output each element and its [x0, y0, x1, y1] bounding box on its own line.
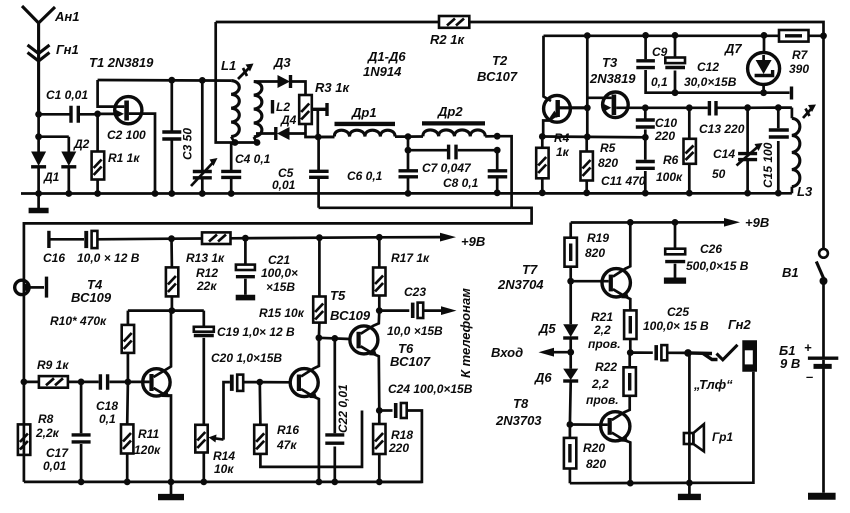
- resistor R22: [586, 353, 636, 407]
- arrow Vhod: [491, 345, 571, 360]
- audio bottom rail: [24, 479, 422, 486]
- output bottom rail: [570, 372, 754, 487]
- wire detector out: [24, 136, 532, 482]
- capacitor C19 electrolytic: [194, 311, 295, 425]
- svg-text:100к: 100к: [656, 170, 683, 184]
- svg-text:R20: R20: [583, 441, 605, 455]
- resistor R12: [166, 239, 218, 311]
- resistor R6: [656, 108, 696, 193]
- bar terminal D7: [675, 87, 792, 100]
- svg-text:С26: С26: [700, 242, 722, 256]
- svg-text:Д1: Д1: [43, 170, 60, 184]
- svg-text:0,01: 0,01: [43, 459, 67, 473]
- svg-text:Т5: Т5: [330, 288, 346, 303]
- svg-text:R19: R19: [587, 231, 609, 245]
- node T6 emitter: [376, 407, 383, 414]
- capacitor C2: [162, 80, 181, 193]
- svg-text:0,1: 0,1: [651, 75, 668, 89]
- ground rail: [21, 189, 792, 197]
- L2 core: [271, 100, 274, 114]
- svg-text:820: 820: [585, 246, 605, 260]
- svg-text:Д7: Д7: [724, 41, 742, 56]
- zener D7: [724, 35, 780, 96]
- input jack: [15, 277, 47, 298]
- inductor L1: [221, 58, 239, 146]
- svg-text:С6 0,1: С6 0,1: [347, 169, 383, 183]
- svg-text:2N3819: 2N3819: [589, 71, 636, 86]
- svg-text:R4: R4: [554, 131, 570, 145]
- svg-text:2,2: 2,2: [593, 323, 611, 337]
- resistor R20: [564, 425, 606, 484]
- svg-text:С10: С10: [655, 116, 677, 130]
- transistor T2 BC107: [477, 36, 587, 137]
- drain rail: [98, 79, 232, 82]
- resistor R7: [779, 30, 809, 76]
- capacitor C4: [221, 143, 270, 194]
- svg-text:R6: R6: [663, 153, 679, 167]
- svg-text:2,2к: 2,2к: [35, 426, 60, 440]
- capacitor C25 electrolytic: [630, 305, 709, 360]
- antenna An1: [22, 6, 79, 114]
- transistor T4 BC109: [128, 311, 171, 482]
- svg-text:Д6: Д6: [534, 370, 552, 385]
- svg-text:С24 100,0×15В: С24 100,0×15В: [388, 382, 473, 396]
- resistor R11: [121, 382, 161, 482]
- node R9-C18-C17: [78, 379, 85, 386]
- switch B1: [782, 36, 828, 285]
- resistor R3: [299, 80, 350, 137]
- capacitor C12 electrolytic: [665, 35, 736, 96]
- inductor L3: [792, 108, 813, 199]
- svg-text:L3: L3: [797, 184, 813, 199]
- svg-text:С2 100: С2 100: [107, 128, 146, 142]
- wire antenna down: [37, 114, 40, 136]
- svg-text:Д1-Д6: Д1-Д6: [367, 49, 406, 64]
- node T5 base: [256, 379, 263, 386]
- node antenna-C1: [35, 111, 42, 118]
- svg-text:1к: 1к: [556, 145, 570, 159]
- wire C5 feedback line: [319, 206, 512, 209]
- capacitor C24 electrolytic: [379, 382, 472, 482]
- supply rail +9V: [168, 233, 485, 249]
- resistor R5: [581, 137, 619, 193]
- gate line y108: [645, 106, 792, 109]
- svg-text:L2: L2: [276, 100, 290, 114]
- svg-text:ВС109: ВС109: [330, 308, 371, 323]
- svg-text:R11: R11: [138, 427, 159, 441]
- capacitor C18: [81, 374, 128, 426]
- svg-text:С17: С17: [46, 446, 69, 460]
- ground symbol audio: [158, 482, 184, 500]
- node gate T1: [94, 111, 101, 118]
- node C5-Dr1: [315, 134, 322, 141]
- svg-text:10к: 10к: [214, 462, 234, 476]
- capacitor C9: [636, 35, 675, 92]
- svg-text:ВС109: ВС109: [71, 290, 112, 305]
- svg-text:С18: С18: [96, 399, 118, 413]
- svg-text:1N914: 1N914: [363, 64, 402, 79]
- svg-text:9 В: 9 В: [780, 356, 800, 371]
- resistor R21: [588, 310, 637, 353]
- ground symbol battery: [808, 493, 836, 500]
- svg-text:390: 390: [789, 62, 809, 76]
- svg-text:10,0 ×15В: 10,0 ×15В: [387, 324, 443, 338]
- tap bar at R3: [312, 103, 327, 137]
- svg-text:100,0× 15 В: 100,0× 15 В: [643, 319, 709, 333]
- svg-text:Т3: Т3: [602, 55, 618, 70]
- wire to T5: [260, 381, 291, 384]
- svg-text:ВС107: ВС107: [477, 69, 518, 84]
- capacitor C23 electrolytic output: [379, 285, 456, 338]
- resistor R17: [373, 237, 430, 310]
- svg-text:R12: R12: [196, 266, 218, 280]
- svg-text:0,1: 0,1: [99, 412, 116, 426]
- transistor T1 2N3819: [89, 55, 155, 193]
- ground symbol left: [29, 194, 49, 214]
- svg-text:ВС107: ВС107: [390, 354, 431, 369]
- svg-text:К телефонам: К телефонам: [458, 288, 473, 378]
- choke Dr1: [318, 105, 408, 137]
- svg-text:+9В: +9В: [745, 215, 769, 230]
- svg-text:50: 50: [712, 167, 726, 181]
- resistor R8: [18, 412, 60, 455]
- wire T6 base: [319, 338, 350, 339]
- node Dr2-C8: [494, 133, 501, 140]
- svg-text:R17 1к: R17 1к: [391, 251, 430, 265]
- svg-text:820: 820: [598, 156, 618, 170]
- battery B1 9V: [779, 281, 838, 493]
- capacitor C16 electrolytic: [43, 231, 172, 265]
- svg-text:С22 0,01: С22 0,01: [336, 384, 350, 433]
- capacitor C8: [488, 150, 508, 193]
- resistor R15: [259, 238, 326, 338]
- resistor R4: [536, 131, 569, 193]
- svg-text:R1 1к: R1 1к: [108, 151, 140, 165]
- svg-text:+: +: [804, 340, 812, 355]
- svg-text:С1 0,01: С1 0,01: [46, 88, 88, 102]
- capacitor C20 electrolytic: [230, 375, 260, 391]
- svg-text:С25: С25: [667, 305, 689, 319]
- wire bias to gate: [586, 36, 589, 137]
- svg-text:10,0 × 12 В: 10,0 × 12 В: [77, 251, 140, 265]
- svg-text:L1: L1: [221, 58, 236, 73]
- jack Gn2 plug: [688, 317, 757, 392]
- svg-text:R16: R16: [277, 423, 299, 437]
- capacitor C11: [601, 137, 655, 193]
- node T6 collector: [376, 307, 383, 314]
- svg-text:С4 0,1: С4 0,1: [235, 152, 271, 166]
- capacitor C5: [272, 137, 329, 208]
- L3 tuning arrow: [803, 105, 816, 119]
- svg-text:47к: 47к: [276, 438, 297, 452]
- resistor R13: [186, 232, 231, 265]
- svg-text:В1: В1: [782, 265, 799, 280]
- svg-text:С21: С21: [268, 253, 290, 267]
- capacitor C15: [761, 108, 789, 194]
- svg-text:2N3704: 2N3704: [497, 277, 544, 292]
- svg-text:R10* 470к: R10* 470к: [50, 314, 107, 328]
- node T5 collector: [316, 334, 323, 341]
- node R21-R22-C25: [627, 349, 634, 356]
- diode D3: [254, 55, 306, 95]
- svg-text:R8: R8: [38, 412, 54, 426]
- svg-text:С15 100: С15 100: [761, 142, 775, 188]
- svg-text:С14: С14: [713, 147, 735, 161]
- choke Dr2: [408, 104, 497, 137]
- svg-text:2N3703: 2N3703: [495, 413, 542, 428]
- svg-text:Д3: Д3: [273, 55, 291, 70]
- ground bar C16: [47, 231, 50, 248]
- resistor R9: [21, 358, 82, 388]
- svg-text:–: –: [806, 369, 813, 384]
- svg-text:С8 0,1: С8 0,1: [443, 176, 479, 190]
- jack Gn1: [28, 42, 79, 61]
- svg-text:Т7: Т7: [522, 262, 538, 277]
- svg-text:R9 1к: R9 1к: [37, 358, 69, 372]
- transistor T8 2N3703: [570, 396, 630, 483]
- capacitor C14 variable: [712, 108, 763, 193]
- rail +3V: [571, 215, 770, 230]
- node T4 base: [125, 379, 132, 386]
- capacitor C26 electrolytic: [664, 222, 749, 283]
- svg-text:100,0×: 100,0×: [261, 266, 298, 280]
- svg-text:С13 220: С13 220: [699, 122, 745, 136]
- wire Gn2 down: [688, 353, 691, 483]
- svg-text:С12: С12: [697, 60, 719, 74]
- diode D2: [61, 137, 89, 194]
- svg-text:Вход: Вход: [491, 345, 523, 360]
- svg-text:820: 820: [586, 457, 606, 471]
- L1 tuning arrow: [238, 64, 254, 80]
- svg-text:22к: 22к: [196, 279, 217, 293]
- svg-text:R14: R14: [213, 449, 235, 463]
- svg-text:2,2: 2,2: [591, 377, 609, 391]
- svg-text:„Тлф“: „Тлф“: [693, 377, 733, 392]
- node Dr1-Dr2: [405, 133, 412, 140]
- bias line y36: [544, 32, 827, 39]
- transistor T7 2N3704: [497, 222, 630, 310]
- svg-text:R5: R5: [600, 141, 616, 155]
- capacitor C3 variable: [181, 80, 218, 193]
- node D1-D2: [35, 133, 42, 140]
- svg-text:R7: R7: [792, 48, 809, 62]
- svg-text:С7 0,047: С7 0,047: [422, 161, 472, 175]
- svg-text:С19 1,0× 12 В: С19 1,0× 12 В: [217, 325, 295, 339]
- capacitor C22: [325, 338, 350, 482]
- svg-text:+9В: +9В: [461, 234, 485, 249]
- svg-text:Т1 2N3819: Т1 2N3819: [89, 55, 154, 70]
- wire to D2: [39, 135, 69, 138]
- transistor T6 BC107: [350, 311, 431, 411]
- svg-text:R21: R21: [591, 310, 613, 324]
- diode D4: [256, 113, 306, 140]
- node Vhod: [567, 349, 574, 356]
- svg-text:Д5: Д5: [538, 321, 556, 336]
- resistor R16: [254, 382, 362, 467]
- resistor R19: [565, 223, 610, 282]
- capacitor C7: [405, 137, 501, 190]
- svg-text:R2 1к: R2 1к: [430, 32, 465, 47]
- svg-text:Т8: Т8: [513, 396, 529, 411]
- svg-text:С11 470: С11 470: [601, 174, 646, 188]
- svg-text:пров.: пров.: [588, 337, 621, 351]
- svg-text:Гн1: Гн1: [56, 42, 79, 57]
- diode D6: [534, 352, 578, 424]
- capacitor C1: [39, 88, 96, 123]
- svg-text:Ан1: Ан1: [54, 9, 79, 24]
- svg-text:Гн2: Гн2: [728, 317, 752, 332]
- potentiometer R14: [195, 382, 235, 482]
- svg-text:R15 10к: R15 10к: [259, 306, 305, 320]
- node T8 base: [567, 421, 574, 428]
- node T3 source: [642, 104, 649, 111]
- svg-text:Др1: Др1: [351, 105, 377, 120]
- wire R10-C19: [128, 309, 204, 312]
- svg-text:R3 1к: R3 1к: [315, 80, 350, 95]
- svg-text:пров.: пров.: [586, 393, 619, 407]
- svg-text:0,01: 0,01: [272, 178, 296, 192]
- transistor T5 BC109: [290, 288, 371, 482]
- svg-text:220: 220: [654, 129, 675, 143]
- capacitor C17: [43, 382, 91, 482]
- svg-text:Д2: Д2: [73, 137, 90, 151]
- svg-text:R22: R22: [595, 360, 617, 374]
- svg-text:500,0×15 В: 500,0×15 В: [686, 259, 749, 273]
- node T2 emitter: [539, 133, 546, 140]
- resistor R1: [92, 114, 141, 193]
- svg-text:Гр1: Гр1: [712, 430, 733, 444]
- ground symbol right: [678, 483, 701, 500]
- node C25-Gn2: [684, 349, 692, 357]
- diode D5: [538, 281, 578, 352]
- node C22: [331, 335, 338, 342]
- svg-text:С20 1,0×15В: С20 1,0×15В: [211, 351, 282, 365]
- svg-text:Т2: Т2: [492, 53, 508, 68]
- svg-text:R13 1к: R13 1к: [186, 251, 225, 265]
- svg-text:Д4: Д4: [280, 113, 297, 127]
- capacitor C6: [347, 150, 418, 193]
- svg-text:С16: С16: [43, 251, 65, 265]
- node R12-R10-C19: [169, 307, 176, 314]
- capacitor C10: [636, 108, 678, 143]
- speaker Gr1: [684, 424, 733, 451]
- svg-text:R18: R18: [391, 428, 413, 442]
- svg-text:120к: 120к: [134, 443, 161, 457]
- capacitor C21 electrolytic: [236, 238, 298, 300]
- capacitor C13: [699, 101, 745, 136]
- resistor R18: [373, 411, 413, 482]
- transistor T3 2N3819: [587, 55, 645, 118]
- wire top rail to coil bottom: [216, 22, 258, 143]
- inductor L2: [254, 82, 291, 146]
- emitter line R4-R5-C10: [542, 135, 645, 139]
- svg-text:С3 50: С3 50: [181, 128, 195, 160]
- diode D1: [31, 137, 60, 194]
- svg-text:Др2: Др2: [437, 104, 463, 119]
- resistor R10: [122, 311, 134, 382]
- top rail with R2: [216, 16, 824, 36]
- svg-text:С23: С23: [404, 285, 426, 299]
- svg-text:30,0×15В: 30,0×15В: [684, 75, 737, 89]
- node T7 base: [567, 278, 574, 285]
- svg-text:220: 220: [388, 441, 409, 455]
- svg-text:×15В: ×15В: [266, 280, 295, 294]
